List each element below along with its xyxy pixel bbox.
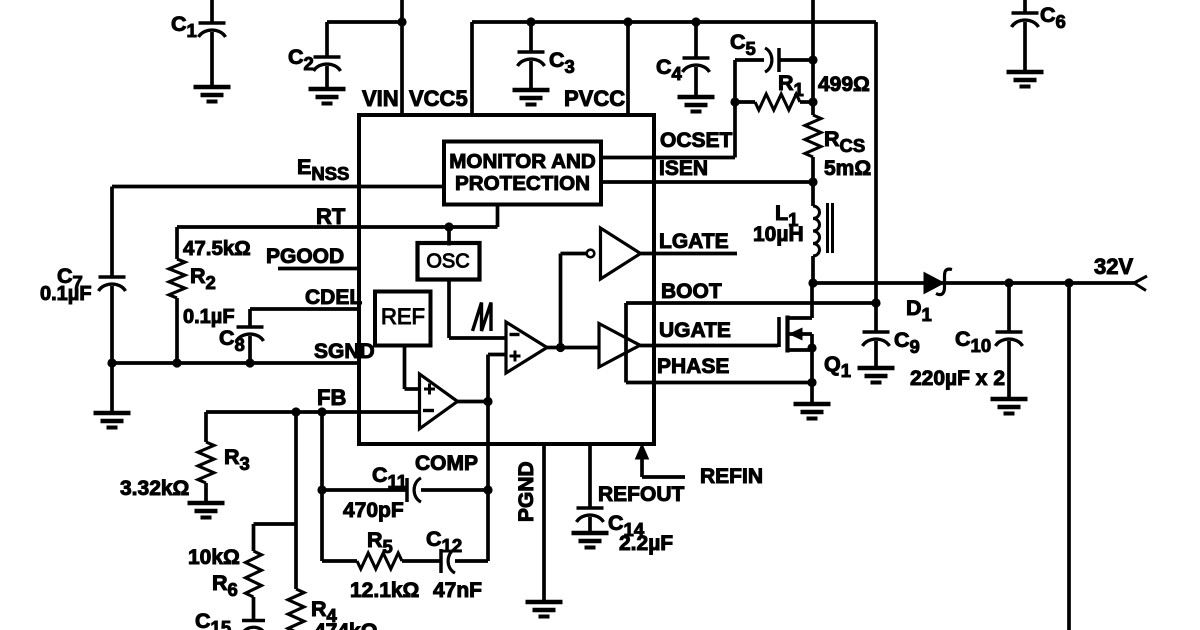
svg-text:C9: C9 — [894, 328, 920, 357]
svg-text:2.2µF: 2.2µF — [619, 532, 673, 555]
svg-text:470pF: 470pF — [343, 499, 404, 522]
svg-text:RCS: RCS — [824, 127, 865, 156]
svg-text:PROTECTION: PROTECTION — [455, 172, 590, 195]
svg-text:COMP: COMP — [415, 452, 478, 475]
svg-text:R2: R2 — [190, 264, 216, 293]
svg-text:Q1: Q1 — [824, 352, 851, 381]
svg-text:3.32kΩ: 3.32kΩ — [120, 477, 189, 500]
svg-text:ISEN: ISEN — [659, 157, 708, 180]
svg-text:0.1µF: 0.1µF — [183, 306, 235, 328]
svg-text:47.5kΩ: 47.5kΩ — [183, 237, 251, 260]
svg-text:REFOUT: REFOUT — [598, 483, 685, 506]
svg-text:47nF: 47nF — [433, 579, 482, 602]
svg-text:CDEL: CDEL — [305, 286, 362, 309]
svg-text:499Ω: 499Ω — [818, 73, 870, 96]
svg-text:REFIN: REFIN — [700, 465, 763, 488]
svg-text:474kΩ: 474kΩ — [314, 620, 378, 630]
svg-text:12.1kΩ: 12.1kΩ — [350, 579, 419, 602]
svg-text:VCC5: VCC5 — [409, 86, 468, 111]
svg-text:PGOOD: PGOOD — [266, 245, 344, 268]
svg-text:C15: C15 — [195, 609, 231, 630]
svg-text:0.1µF: 0.1µF — [40, 283, 92, 305]
svg-text:LGATE: LGATE — [659, 230, 729, 253]
svg-text:C2: C2 — [288, 45, 314, 74]
svg-text:C5: C5 — [730, 30, 756, 59]
svg-text:PHASE: PHASE — [657, 355, 729, 378]
svg-text:R6: R6 — [212, 571, 238, 600]
svg-text:VIN: VIN — [362, 86, 399, 111]
svg-text:BOOT: BOOT — [661, 280, 722, 303]
svg-text:SGND: SGND — [314, 340, 375, 363]
svg-text:C4: C4 — [656, 55, 683, 84]
svg-text:C8: C8 — [219, 326, 245, 355]
svg-text:UGATE: UGATE — [659, 319, 731, 342]
svg-text:5mΩ: 5mΩ — [824, 157, 871, 180]
svg-text:ENSS: ENSS — [297, 155, 349, 184]
svg-text:C3: C3 — [549, 48, 575, 77]
svg-text:REF: REF — [381, 304, 425, 329]
svg-text:32V: 32V — [1094, 254, 1133, 279]
svg-text:220µF x 2: 220µF x 2 — [910, 367, 1005, 390]
svg-text:C10: C10 — [955, 327, 991, 356]
svg-text:10kΩ: 10kΩ — [188, 546, 240, 569]
svg-text:OSC: OSC — [426, 251, 469, 273]
svg-text:C6: C6 — [1040, 3, 1066, 32]
svg-text:OCSET: OCSET — [660, 129, 733, 152]
svg-text:C11: C11 — [372, 463, 407, 492]
svg-text:PVCC: PVCC — [564, 86, 625, 111]
svg-text:RT: RT — [316, 204, 346, 229]
svg-text:C12: C12 — [426, 527, 462, 556]
svg-text:FB: FB — [317, 385, 346, 410]
svg-text:R3: R3 — [224, 445, 250, 474]
svg-text:D1: D1 — [906, 296, 932, 325]
svg-text:10µH: 10µH — [753, 223, 804, 246]
svg-text:C1: C1 — [171, 12, 197, 41]
svg-text:R5: R5 — [367, 528, 393, 557]
svg-text:PGND: PGND — [515, 461, 538, 522]
svg-text:MONITOR AND: MONITOR AND — [449, 150, 595, 173]
